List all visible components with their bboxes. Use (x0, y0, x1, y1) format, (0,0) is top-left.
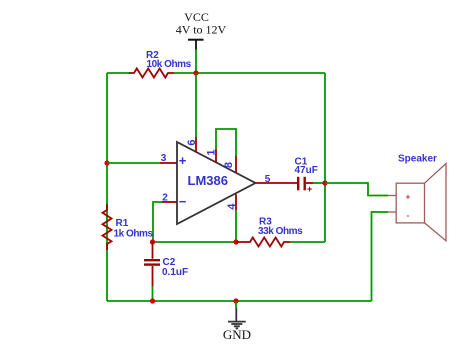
wire to pin 3 (107, 162, 160, 164)
svg-text:R1: R1 (116, 218, 129, 229)
wire top rail right segment (196, 72, 325, 74)
svg-text:1k Ohms: 1k Ohms (114, 229, 154, 240)
wire output vertical (324, 73, 326, 242)
svg-text:8: 8 (223, 162, 235, 168)
svg-text:−: − (179, 194, 187, 209)
power VCC (176, 10, 227, 50)
svg-text:+: + (179, 153, 187, 168)
resistor R2 (129, 50, 192, 78)
svg-text:+: + (307, 184, 312, 194)
wire pin 4 down (235, 210, 237, 242)
svg-text:4V to 12V: 4V to 12V (176, 23, 227, 37)
wire pin 1 to pin 8 loop (216, 129, 236, 156)
wire mid rail (153, 241, 236, 243)
junction VCC node (193, 70, 198, 75)
capacitor C1 (295, 157, 318, 195)
pin stub speaker minus (388, 211, 396, 213)
wire pin 6 (195, 73, 197, 137)
wire top rail left segment (107, 72, 130, 74)
ground GND (223, 308, 251, 342)
svg-text:Speaker: Speaker (398, 154, 437, 165)
wire VCC to top rail (195, 50, 197, 74)
wire C2 to ground rail (152, 286, 154, 301)
resistor R1 (103, 204, 154, 250)
wire ground rail (107, 300, 372, 302)
speaker LS1 (396, 154, 446, 241)
wire pin 2 bend (153, 202, 162, 242)
pin stub 5 and wire to C1 (256, 182, 298, 184)
pin stub 4 (235, 194, 237, 210)
svg-text:47uF: 47uF (295, 165, 318, 176)
pin stub 3 (160, 162, 177, 164)
svg-text:33k Ohms: 33k Ohms (258, 226, 303, 237)
junction input node (104, 160, 109, 165)
junction C2 bottom node (150, 298, 155, 303)
wire left vertical (106, 73, 108, 301)
svg-text:LM386: LM386 (188, 173, 228, 188)
pin stub 1 (215, 149, 217, 163)
pin stub 2 (162, 201, 177, 203)
svg-text:10k Ohms: 10k Ohms (147, 59, 192, 70)
op-amp U1 LM386 (177, 142, 256, 224)
pin stub 8 (235, 156, 237, 173)
svg-text:3: 3 (161, 153, 167, 164)
pin stub 6 (195, 137, 197, 152)
wire R3 to output vertical (290, 241, 325, 243)
wire R2 to VCC node (174, 72, 196, 74)
pin stub speaker plus (388, 195, 396, 197)
svg-text:GND: GND (223, 327, 251, 342)
svg-text:-: - (407, 211, 410, 220)
wire ground stub (235, 301, 237, 308)
junction output node (322, 180, 327, 185)
wire output to speaker plus (325, 183, 388, 196)
capacitor C2 (144, 242, 188, 286)
junction pin4 node (233, 239, 238, 244)
wire speaker minus to ground rail (372, 212, 389, 301)
svg-text:0.1uF: 0.1uF (162, 267, 188, 278)
wire C1 to output node (313, 182, 325, 184)
svg-text:+: + (406, 193, 411, 202)
junction C2 top node (150, 239, 155, 244)
svg-text:2: 2 (162, 193, 168, 204)
junction ground node (233, 298, 238, 303)
resistor R3 (236, 217, 303, 247)
